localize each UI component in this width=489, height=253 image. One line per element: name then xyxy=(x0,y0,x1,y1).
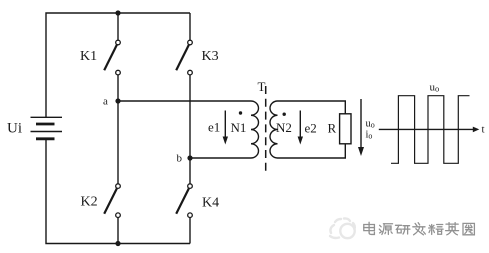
svg-text:Ui: Ui xyxy=(7,121,22,137)
svg-text:N2: N2 xyxy=(276,120,292,135)
svg-text:K1: K1 xyxy=(80,49,97,64)
svg-text:R: R xyxy=(328,121,337,136)
svg-text:e1: e1 xyxy=(208,120,220,135)
svg-text:t: t xyxy=(482,124,485,136)
svg-text:N1: N1 xyxy=(231,120,247,135)
svg-text:e2: e2 xyxy=(305,121,317,136)
svg-text:uo: uo xyxy=(430,82,440,94)
svg-text:K3: K3 xyxy=(202,49,219,64)
svg-text:K2: K2 xyxy=(81,195,98,210)
svg-text:uo: uo xyxy=(366,119,375,130)
svg-text:b: b xyxy=(177,153,183,165)
svg-text:a: a xyxy=(103,96,108,108)
svg-text:K4: K4 xyxy=(202,196,219,211)
svg-text:T: T xyxy=(258,79,266,94)
svg-text:io: io xyxy=(366,130,373,141)
